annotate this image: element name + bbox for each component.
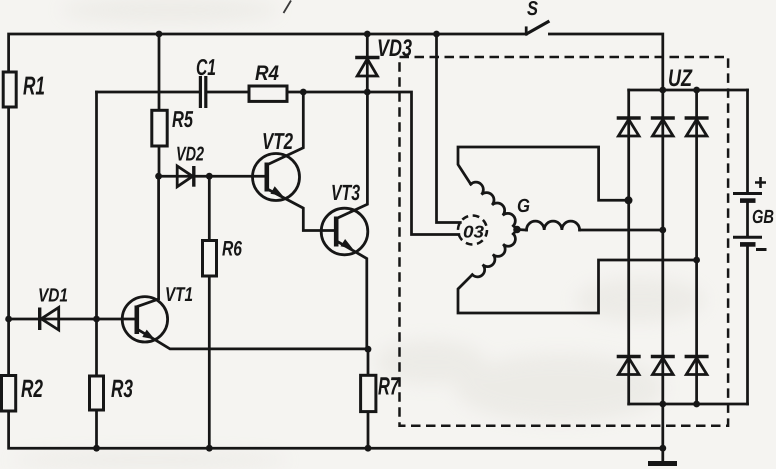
svg-text:R5: R5 <box>172 106 194 132</box>
svg-text:VT1: VT1 <box>165 284 193 306</box>
svg-text:VD2: VD2 <box>176 144 204 166</box>
svg-text:R6: R6 <box>222 238 242 261</box>
svg-text:03: 03 <box>463 223 485 242</box>
svg-text:G: G <box>517 196 530 217</box>
svg-text:UZ: UZ <box>668 65 693 92</box>
svg-text:R2: R2 <box>21 375 43 403</box>
svg-text:VT3: VT3 <box>331 180 360 205</box>
svg-text:C1: C1 <box>196 54 216 80</box>
svg-text:VT2: VT2 <box>262 128 293 154</box>
svg-text:VD1: VD1 <box>38 286 68 307</box>
svg-text:S: S <box>527 0 539 20</box>
svg-text:R3: R3 <box>111 375 133 403</box>
svg-text:GB: GB <box>752 207 774 228</box>
svg-text:R7: R7 <box>378 373 400 401</box>
svg-text:VD3: VD3 <box>377 35 412 62</box>
svg-text:R1: R1 <box>23 71 45 101</box>
svg-text:R4: R4 <box>255 62 279 85</box>
